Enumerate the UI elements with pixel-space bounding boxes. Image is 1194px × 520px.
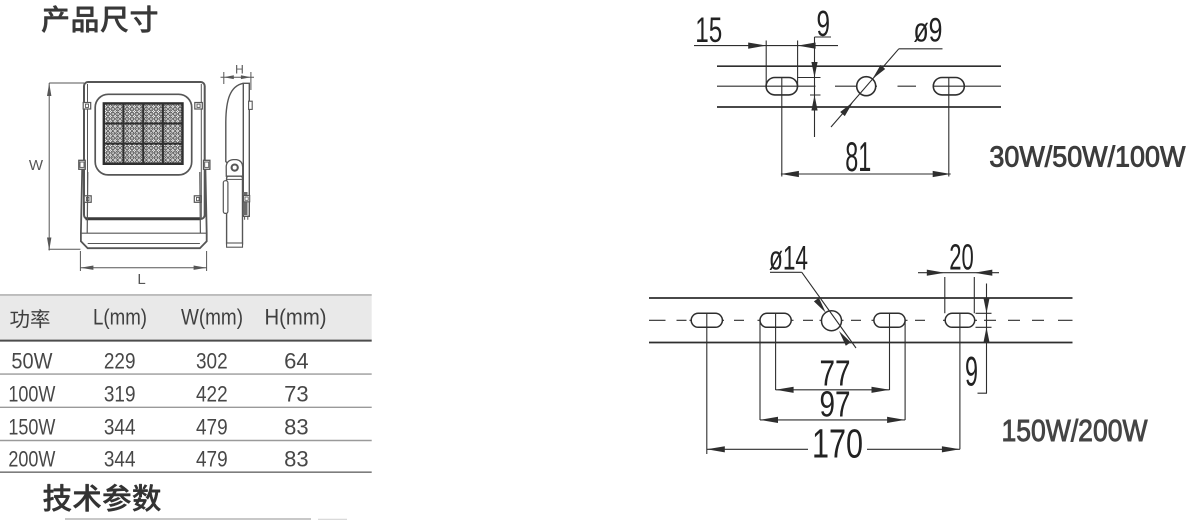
side view back plate lower bbox=[245, 216, 248, 220]
dim 15 arrows bbox=[748, 43, 766, 49]
svg-text:150W/200W: 150W/200W bbox=[1002, 413, 1149, 448]
diameter 9 leader arrows bbox=[872, 65, 885, 79]
side view pivot hole bbox=[232, 165, 238, 171]
bottom cropped next-section marks bbox=[65, 518, 311, 520]
dim 77 arrows bbox=[776, 387, 794, 393]
right pivot mount bbox=[204, 160, 210, 169]
svg-text:83: 83 bbox=[284, 447, 309, 472]
dim 81 lines bbox=[781, 173, 951, 175]
table header band bbox=[0, 294, 372, 340]
dim 97 line bbox=[760, 419, 905, 421]
svg-text:20: 20 bbox=[949, 237, 974, 278]
text label header 功率 bbox=[10, 309, 49, 328]
side view pivot knuckle bbox=[226, 160, 243, 177]
upper left clip bbox=[83, 103, 91, 110]
svg-text:229: 229 bbox=[104, 349, 136, 374]
front view body inner side lines bbox=[88, 84, 202, 218]
dim 81 arrows bbox=[781, 171, 799, 177]
slot A1 crosshair bbox=[766, 78, 797, 177]
slot B1 crosshair bbox=[706, 313, 708, 454]
L dimension extension lines bbox=[80, 251, 206, 271]
strip A bottom edge bbox=[717, 106, 1001, 108]
svg-text:344: 344 bbox=[104, 447, 136, 472]
side view bracket left tab bbox=[223, 181, 228, 214]
svg-text:479: 479 bbox=[196, 415, 228, 440]
svg-text:L: L bbox=[137, 271, 145, 288]
hole A2 circle bbox=[857, 77, 876, 96]
dim 9 right lines bbox=[976, 284, 992, 394]
strip B top edge bbox=[649, 297, 1073, 299]
side view upper clip bbox=[249, 101, 253, 109]
svg-text:H(mm): H(mm) bbox=[265, 305, 327, 330]
svg-text:ø14: ø14 bbox=[769, 240, 808, 278]
dim 15 lines bbox=[694, 41, 838, 88]
svg-text:50W: 50W bbox=[11, 349, 53, 374]
mounting bracket yoke bbox=[81, 169, 207, 248]
lower right clip bbox=[194, 196, 201, 203]
lower left clip bbox=[84, 196, 91, 203]
slot B4 crosshairs bbox=[890, 313, 906, 420]
dim 77 line bbox=[776, 389, 890, 391]
L dimension line bbox=[80, 267, 206, 269]
svg-text:479: 479 bbox=[196, 447, 228, 472]
svg-text:97: 97 bbox=[820, 384, 851, 425]
dim 170 line bbox=[707, 448, 960, 450]
slot A3 crosshair bbox=[933, 78, 964, 177]
H dimension line bbox=[221, 76, 255, 78]
dim 9 top lines bbox=[798, 37, 831, 137]
strip A top edge bbox=[717, 65, 1001, 67]
svg-text:9: 9 bbox=[965, 348, 978, 395]
dim 20 lines bbox=[918, 273, 999, 314]
front view body bottom thick edge bbox=[86, 217, 201, 220]
strip B bottom edge bbox=[649, 342, 1073, 344]
dim 9 right arrows bbox=[983, 298, 989, 314]
left pivot mount bbox=[79, 160, 85, 169]
svg-text:H: H bbox=[235, 63, 244, 77]
table header bottom border bbox=[0, 340, 372, 342]
table row line 2 bbox=[0, 406, 372, 408]
diameter 14 leader arrows bbox=[814, 298, 826, 313]
dim 20 arrows bbox=[927, 270, 945, 276]
svg-text:81: 81 bbox=[845, 133, 871, 180]
W dimension line bbox=[48, 83, 50, 251]
side view bracket bottom band bbox=[227, 243, 243, 247]
table row line 1 bbox=[0, 373, 372, 375]
LED panel bbox=[104, 103, 183, 163]
bracket bottom inner line bbox=[88, 243, 200, 245]
text label heading 技术参数 bbox=[43, 484, 160, 512]
strip A centerline bbox=[717, 85, 1001, 87]
bracket inner edges bbox=[81, 172, 207, 233]
side view bracket top inner line bbox=[227, 178, 243, 180]
svg-text:200W: 200W bbox=[8, 447, 56, 472]
svg-text:30W/50W/100W: 30W/50W/100W bbox=[989, 141, 1185, 173]
H dimension extension lines bbox=[224, 72, 251, 90]
slot B1 bbox=[691, 313, 722, 327]
dim 170 text bg bbox=[808, 432, 867, 457]
H dim arrows bbox=[224, 75, 234, 79]
svg-text:9: 9 bbox=[817, 3, 831, 44]
strip B centerline dashes bbox=[649, 319, 1073, 321]
front view inner rounded frame bbox=[95, 94, 192, 175]
diameter 14 leader bbox=[770, 272, 856, 348]
W dimension extension lines bbox=[48, 83, 84, 251]
slot A3 bbox=[933, 78, 964, 95]
hole B3 circle bbox=[822, 311, 842, 331]
slot A1 bbox=[766, 78, 797, 95]
svg-text:73: 73 bbox=[284, 382, 309, 407]
svg-text:302: 302 bbox=[196, 349, 228, 374]
slot B5 bbox=[945, 313, 975, 327]
table row line 3 bbox=[0, 440, 372, 442]
slot B2 crosshairs bbox=[760, 313, 776, 420]
text label title 产品尺寸 bbox=[42, 5, 157, 32]
side view lower bracket bbox=[227, 176, 243, 246]
svg-text:319: 319 bbox=[104, 382, 136, 407]
upper right clip bbox=[195, 103, 203, 110]
svg-text:W(mm): W(mm) bbox=[181, 305, 243, 330]
dim 9 top arrows bbox=[811, 62, 817, 78]
slot B2 bbox=[760, 313, 791, 327]
svg-text:L(mm): L(mm) bbox=[93, 305, 147, 330]
svg-text:422: 422 bbox=[196, 382, 228, 407]
W dim arrows bbox=[47, 83, 51, 251]
svg-text:W: W bbox=[29, 157, 44, 174]
side view back plate bbox=[243, 83, 249, 216]
svg-text:ø9: ø9 bbox=[914, 12, 943, 50]
svg-text:100W: 100W bbox=[8, 382, 56, 407]
side view lower clip bbox=[244, 196, 250, 202]
dim 97 arrows bbox=[760, 417, 778, 423]
dim 170 arrows bbox=[707, 446, 725, 452]
side view lower bracket dark gap bbox=[243, 192, 248, 215]
svg-text:150W: 150W bbox=[8, 415, 56, 440]
L dim arrows bbox=[80, 266, 206, 270]
svg-text:64: 64 bbox=[284, 349, 309, 374]
table bottom border bbox=[0, 471, 372, 473]
front view body outer bbox=[84, 82, 205, 219]
svg-text:170: 170 bbox=[812, 421, 863, 467]
svg-text:83: 83 bbox=[284, 415, 309, 440]
table header top border bbox=[0, 294, 372, 296]
side view curved front profile bbox=[226, 83, 244, 164]
LED panel grid lines bbox=[104, 104, 183, 164]
svg-text:15: 15 bbox=[695, 11, 722, 50]
slot B5 crosshair bbox=[959, 313, 961, 449]
svg-text:344: 344 bbox=[104, 415, 136, 440]
slot B4 bbox=[874, 313, 905, 327]
diameter 9 leader bbox=[831, 49, 943, 127]
